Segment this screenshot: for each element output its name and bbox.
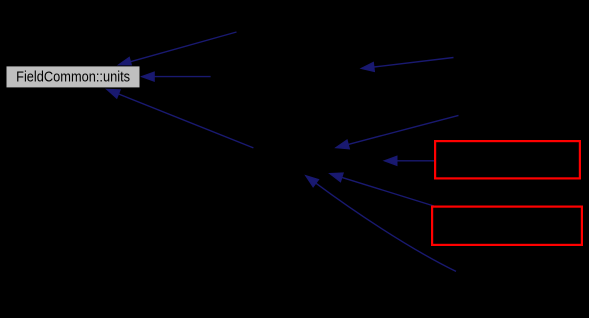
node truncated caller 1 (red box): [435, 141, 580, 178]
wire edge E5: indirect caller to middle node top: [336, 115, 459, 148]
svg-text:FieldCommon::units: FieldCommon::units: [16, 67, 130, 84]
wire edge E3: indirect caller to middle caller node: [361, 58, 454, 72]
wire edge E4: middle caller node to FieldCommon::units: [107, 89, 254, 148]
wire edge E1: caller node (invisible) top-right to FieldCommon::units: [118, 32, 237, 66]
wire edge E8: bottom indirect caller to middle node: [306, 176, 457, 272]
wire edge E2: caller node (invisible) horizontal to FieldCommon::units: [141, 72, 210, 81]
wire edge E6: truncated red node 1 to middle node: [384, 156, 434, 165]
node FieldCommon::units (current node, gray): [6, 66, 140, 88]
node truncated caller 2 (red box): [432, 207, 582, 245]
wire edge E7: truncated red node 2 to middle node: [330, 173, 434, 206]
